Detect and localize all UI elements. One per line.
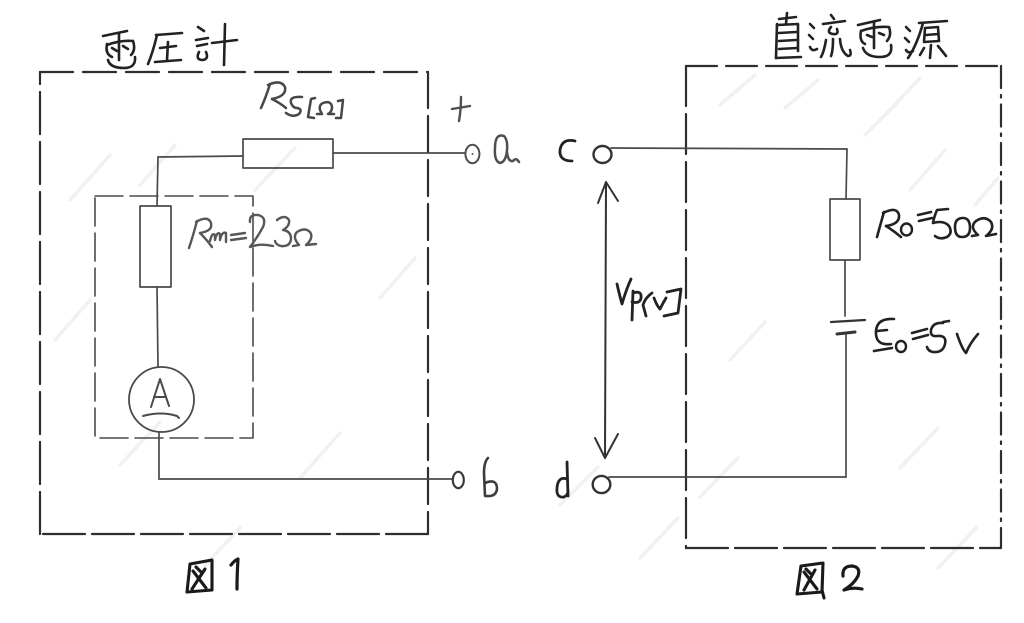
resistor Rs: [243, 139, 333, 168]
wire: Rs right to terminal a: [333, 152, 465, 154]
Vp measurement arrow (double-headed): [595, 182, 618, 458]
resistor Ro: [830, 199, 860, 260]
wire: terminal c to top-right corner: [611, 148, 847, 149]
label d: [557, 462, 568, 497]
title 直流電源 (DC power source): [776, 13, 947, 58]
wire: battery to bottom corner: [845, 335, 847, 477]
faint paper scratches (decorative): [55, 75, 998, 568]
label Eo=5V: [874, 319, 978, 353]
label a: [495, 136, 519, 164]
terminal d (circle): [593, 476, 611, 493]
battery Eo: short plate: [837, 332, 855, 334]
wire: corner down to Ro: [846, 149, 847, 199]
label c: [560, 140, 575, 161]
label b: [484, 458, 497, 496]
ammeter A: [129, 367, 194, 432]
wire: horizontal to terminal b: [159, 478, 452, 480]
wire: Rm bottom to ammeter: [157, 287, 158, 367]
terminal a (circle): [465, 145, 479, 163]
ammeter letter A with underline: [143, 379, 179, 418]
label Vp[v]: [617, 279, 681, 320]
title 電圧計 (voltmeter): [103, 24, 237, 68]
label 図1 (figure 1): [187, 560, 212, 592]
label Rs[Ω]: [261, 82, 343, 118]
wire: junction to Rs left: [158, 156, 243, 157]
voltmeter outer enclosure (dashed box): [40, 72, 428, 534]
wire: bottom corner to terminal d: [609, 476, 846, 478]
label Ro=50Ω: [877, 209, 996, 238]
DC source enclosure: right edge (dash-dot): [1000, 66, 1002, 548]
wire: junction down to Rm top: [157, 157, 158, 206]
battery Eo: long plate: [831, 320, 865, 322]
DC source enclosure: dashed top, left, bottom: [686, 66, 1001, 548]
wire: ammeter bottom down: [158, 432, 160, 479]
inner meter enclosure (dashed box): [95, 196, 253, 438]
label 図2 (figure 2): [797, 563, 824, 598]
terminal c (circle): [594, 146, 612, 163]
label + (polarity): [452, 97, 470, 121]
terminal b (circle): [453, 472, 464, 488]
wire: Ro bottom to battery: [844, 260, 846, 316]
resistor Rm: [140, 206, 171, 287]
label Rm=23Ω: [189, 215, 316, 248]
